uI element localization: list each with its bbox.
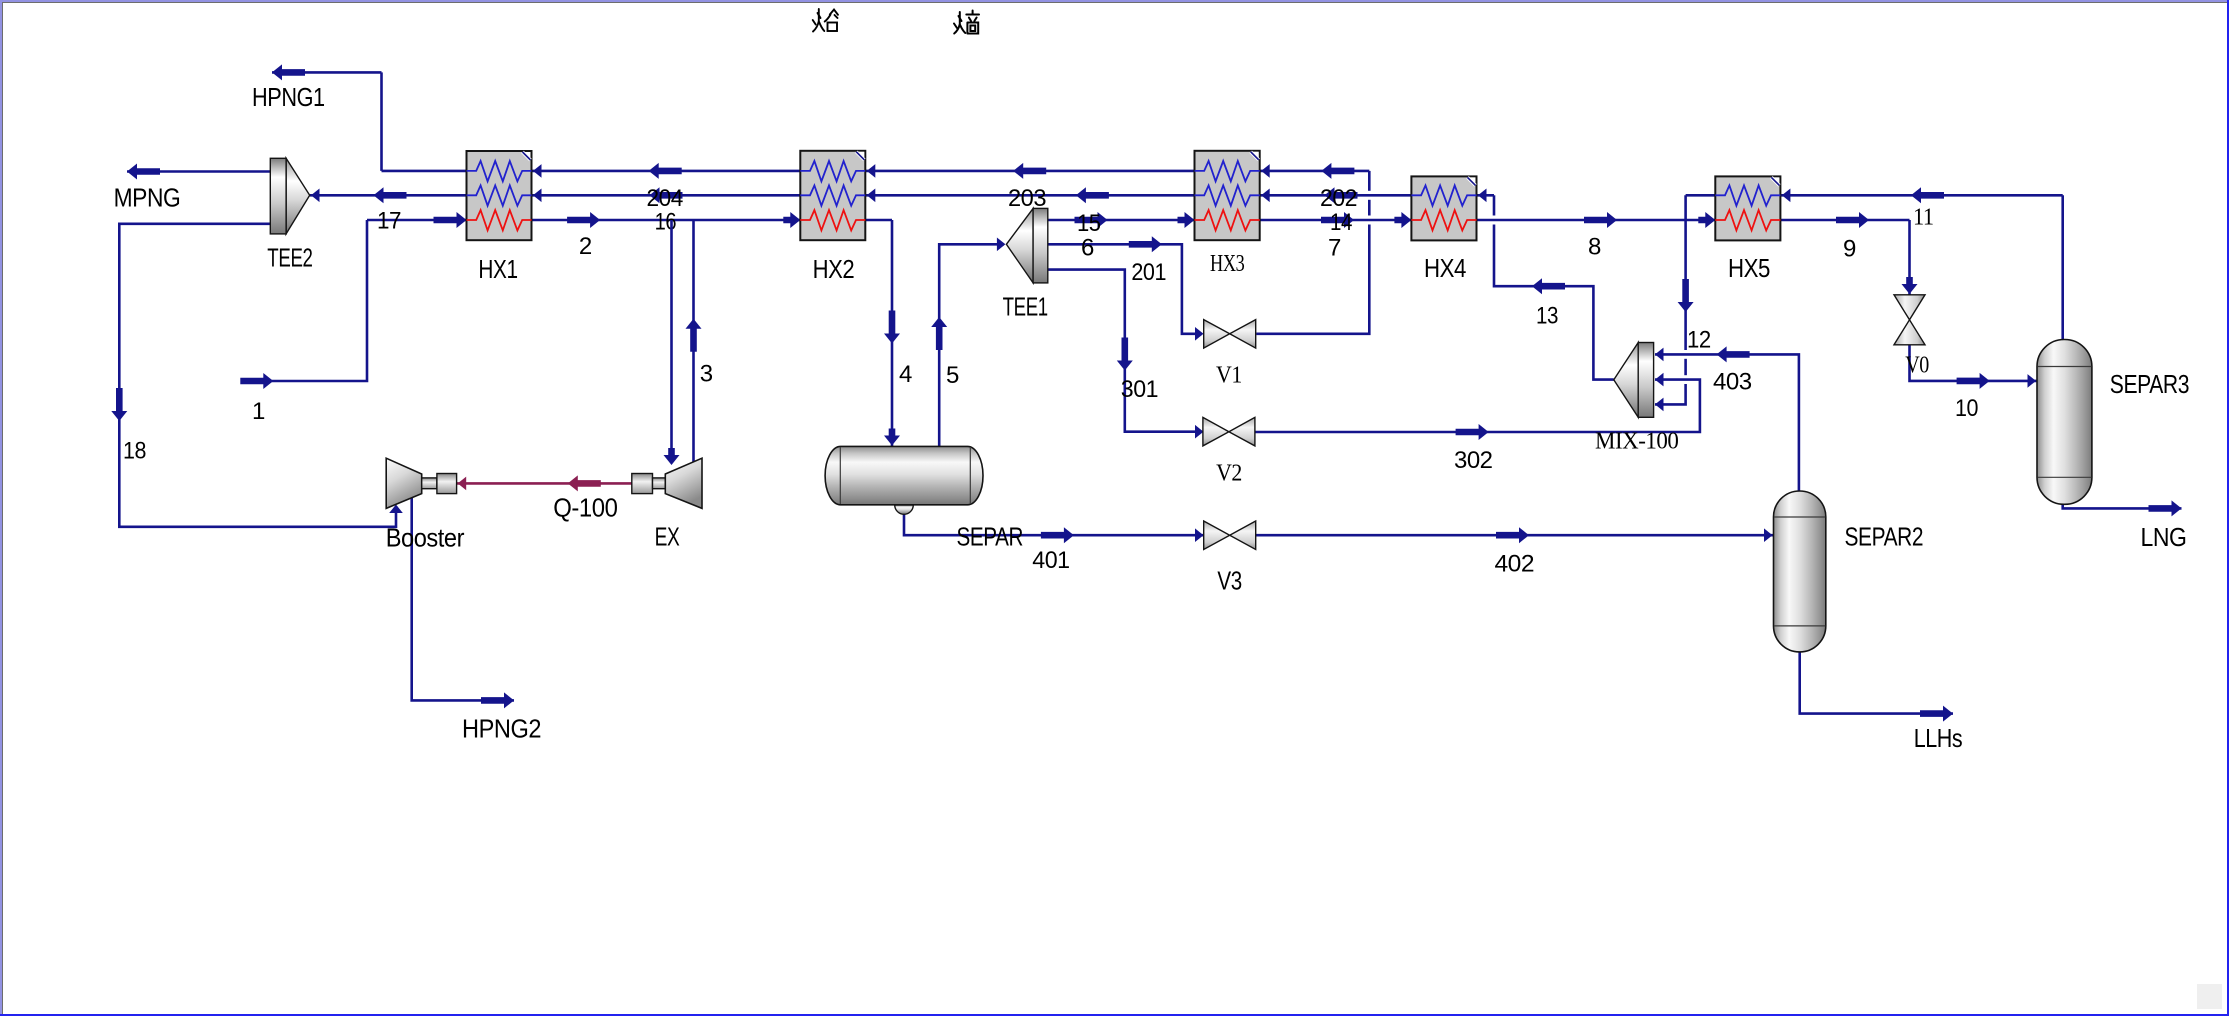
label 5 bbox=[946, 362, 959, 389]
label SEPAR2 bbox=[1845, 521, 1924, 551]
stream arrow top row into HX3 bbox=[1321, 163, 1354, 179]
svg-text:HPNG1: HPNG1 bbox=[252, 82, 325, 112]
wire V2 outlet stream 302 to MIX bbox=[1255, 380, 1700, 432]
stream 9 arrow into V0 bbox=[1902, 277, 1918, 294]
wire red row HX5 to V0 stream 9 bbox=[1780, 220, 1909, 295]
wire stream 5 riser to TEE1 bbox=[939, 244, 1004, 446]
svg-text:11: 11 bbox=[1913, 205, 1934, 231]
wire stream 18 from TEE2 bbox=[119, 224, 396, 527]
label Booster bbox=[386, 523, 465, 553]
node arrowhead at HX3 top right bbox=[1261, 164, 1270, 178]
heat exchanger HX2 bbox=[800, 151, 865, 240]
svg-text:V0: V0 bbox=[1905, 352, 1929, 378]
stream 302 arrowhead into MIX bbox=[1655, 373, 1664, 387]
label 202 bbox=[1320, 185, 1357, 212]
wire red row HX3-HX4 streams 7/14 bbox=[1260, 219, 1412, 222]
wire hot return top row: riser to HX1 bbox=[382, 170, 467, 173]
svg-text:302: 302 bbox=[1454, 447, 1493, 474]
title char 熵 bbox=[954, 11, 979, 34]
heat exchanger HX4 bbox=[1411, 176, 1476, 240]
valve V2 bbox=[1203, 417, 1255, 446]
mixer MIX-100 bbox=[1614, 343, 1654, 418]
node arrowhead at HX1 top right bbox=[533, 164, 542, 178]
wire stream 402 V3 to SEPAR2 bbox=[1255, 534, 1774, 537]
wire mid row TEE2-HX1 stream 204 end bbox=[310, 194, 467, 197]
stream 204 arrow bbox=[650, 187, 683, 203]
valve V3 bbox=[1204, 521, 1256, 550]
svg-text:4: 4 bbox=[899, 361, 912, 388]
svg-text:5: 5 bbox=[946, 362, 959, 389]
stream 15 arrow bbox=[1075, 212, 1108, 228]
svg-text:HPNG2: HPNG2 bbox=[462, 714, 541, 744]
label 3 bbox=[700, 361, 713, 388]
stream 18 arrow down bbox=[111, 388, 127, 421]
svg-text:201: 201 bbox=[1131, 259, 1166, 286]
wire LLHs from SEPAR2 bottom bbox=[1800, 652, 1953, 714]
wire 12 drop from HX5 left bbox=[1686, 194, 1716, 197]
wire mid row HX2-HX3 stream 203 bbox=[865, 194, 1194, 197]
node arrowhead at HX4 mid right bbox=[1478, 189, 1487, 203]
label HX4 bbox=[1424, 253, 1466, 283]
heat exchanger HX1 bbox=[467, 151, 532, 240]
stream 5 arrowhead into TEE1 bbox=[997, 238, 1006, 252]
energy Q-100 arrow bbox=[568, 475, 601, 491]
stream HPNG1 arrow bbox=[272, 64, 305, 80]
label 7 bbox=[1328, 234, 1341, 261]
wire LNG from SEPAR3 bottom bbox=[2063, 502, 2182, 508]
separator SEPAR3 bbox=[2037, 340, 2092, 505]
stream arrow top row into HX2 bbox=[1013, 163, 1046, 179]
label 11 bbox=[1913, 205, 1934, 231]
svg-text:TEE1: TEE1 bbox=[1003, 292, 1048, 322]
wire stream 2 drop to EX bbox=[670, 220, 673, 463]
svg-text:SEPAR: SEPAR bbox=[957, 521, 1024, 551]
wire stream 403 from SEPAR2 to MIX bbox=[1655, 354, 1799, 491]
svg-text:HX5: HX5 bbox=[1728, 253, 1770, 283]
wire top row HX2-HX3 bbox=[865, 170, 1194, 173]
expander EX bbox=[632, 458, 702, 508]
wire top row HX1-HX2 bbox=[532, 170, 801, 173]
wire stream 4 drop into SEPAR bbox=[891, 220, 894, 446]
label TEE1 bbox=[1003, 292, 1048, 322]
wire HPNG1 outlet line bbox=[272, 72, 382, 170]
title char 焓 bbox=[813, 9, 838, 32]
wire HPNG2 from Booster bbox=[412, 498, 514, 700]
stream 11 arrow bbox=[1911, 187, 1944, 203]
wire mid row HX1-HX2 stream 204 bbox=[532, 194, 801, 197]
svg-text:SEPAR3: SEPAR3 bbox=[2110, 369, 2189, 399]
stream 401 arrowhead into V3 bbox=[1195, 528, 1204, 542]
wire red row HX4-HX5 stream 8 bbox=[1477, 219, 1716, 222]
stream arrow top row into HX1 bbox=[649, 163, 682, 179]
wire MPNG from TEE2 bbox=[127, 170, 270, 173]
stream 203 arrow bbox=[1076, 187, 1109, 203]
stream 6 arrowhead into V1 bbox=[1195, 327, 1204, 341]
label EX bbox=[655, 521, 680, 551]
label 10 bbox=[1955, 395, 1978, 422]
wire stream 17 into HX1 bbox=[367, 219, 467, 222]
label LNG bbox=[2141, 522, 2187, 552]
stream 8 arrow bbox=[1584, 212, 1617, 228]
label HPNG1 bbox=[252, 82, 325, 112]
svg-text:V3: V3 bbox=[1217, 566, 1241, 596]
svg-text:HX2: HX2 bbox=[813, 254, 855, 284]
label 203 bbox=[1008, 185, 1046, 212]
wire red row HX1-HX2 streams 2/16 bbox=[532, 219, 801, 222]
wire stream 13 MIX outlet to HX4 bbox=[1494, 195, 1614, 379]
stream 4 arrow down bbox=[884, 311, 900, 344]
label 402 bbox=[1495, 551, 1535, 578]
label 201 bbox=[1131, 259, 1166, 286]
stream 301 arrow down bbox=[1117, 338, 1133, 371]
node arrowhead at TEE2 apex bbox=[311, 189, 320, 203]
label V2 bbox=[1216, 461, 1242, 487]
wire mid row HX5 right to stream 11 riser bbox=[1780, 194, 2062, 197]
svg-text:Q-100: Q-100 bbox=[553, 492, 617, 522]
svg-text:7: 7 bbox=[1328, 234, 1341, 261]
label LLHs bbox=[1914, 723, 1963, 753]
stream 402 arrow bbox=[1496, 527, 1529, 543]
stream 12 arrowhead into MIX bbox=[1655, 398, 1664, 412]
stream 14 arrow bbox=[1321, 212, 1354, 228]
svg-text:TEE2: TEE2 bbox=[267, 243, 312, 273]
stream 302 arrow bbox=[1456, 424, 1489, 440]
stream 15 arrow into HX3 bbox=[1178, 212, 1195, 228]
stream 1 arrow bbox=[240, 373, 273, 389]
stream 402 arrowhead into SEPAR2 bbox=[1764, 528, 1773, 542]
wire HX4 right to 13 riser bbox=[1477, 194, 1495, 197]
svg-text:LLHs: LLHs bbox=[1914, 723, 1963, 753]
stream HPNG2 arrow bbox=[481, 692, 514, 708]
stream LNG arrow bbox=[2149, 500, 2182, 516]
heat exchanger HX5 bbox=[1715, 176, 1780, 240]
stream arrow into TEE2 apex bbox=[374, 187, 407, 203]
stream 9 arrow bbox=[1836, 212, 1869, 228]
label 16 bbox=[655, 208, 677, 235]
node arrowhead at HX2 mid right bbox=[867, 189, 876, 203]
svg-text:18: 18 bbox=[123, 438, 146, 465]
svg-text:10: 10 bbox=[1955, 395, 1978, 422]
stream LLHs arrow bbox=[1920, 706, 1953, 722]
svg-text:HX1: HX1 bbox=[478, 254, 517, 284]
separator SEPAR2 bbox=[1774, 491, 1826, 652]
stream 5 arrow up bbox=[931, 317, 947, 350]
svg-text:EX: EX bbox=[655, 521, 680, 551]
tee TEE2 bbox=[270, 158, 309, 234]
heat exchanger HX3 bbox=[1195, 151, 1260, 240]
wire HX2 red out to stream 4 drop bbox=[865, 219, 892, 222]
label 4 bbox=[899, 361, 912, 388]
label 401 bbox=[1032, 547, 1069, 574]
stream 13 arrow bbox=[1532, 278, 1565, 294]
stream 6 arrow bbox=[1129, 236, 1162, 252]
svg-text:402: 402 bbox=[1495, 551, 1535, 578]
label SEPAR3 bbox=[2110, 369, 2189, 399]
wire stream 401 SEPAR to V3 bbox=[904, 512, 1205, 535]
stream 301 arrowhead into V2 bbox=[1195, 425, 1204, 439]
wire TEE1 out stream 201/301 to V2 bbox=[1048, 270, 1202, 432]
label TEE2 bbox=[267, 243, 312, 273]
node arrowhead at HX2 top right bbox=[867, 164, 876, 178]
svg-text:14: 14 bbox=[1330, 209, 1352, 236]
wire TEE1 out stream 6 to V1 bbox=[1048, 244, 1202, 333]
stream 403 arrow bbox=[1717, 346, 1750, 362]
stream 403 arrowhead into MIX bbox=[1655, 348, 1664, 362]
svg-text:MIX-100: MIX-100 bbox=[1595, 429, 1679, 455]
label 204 bbox=[647, 185, 683, 212]
label 301 bbox=[1121, 376, 1158, 403]
wire stream 1 feed bbox=[242, 220, 367, 381]
wire V1 outlet riser to HX3 top bbox=[1256, 171, 1369, 334]
svg-text:Booster: Booster bbox=[386, 523, 465, 553]
label HPNG2 bbox=[462, 714, 541, 744]
svg-text:1: 1 bbox=[252, 398, 265, 425]
node arrowhead at HX1 mid right bbox=[533, 189, 542, 203]
stream 10 arrowhead into SEPAR3 bbox=[2028, 374, 2037, 388]
label MPNG bbox=[114, 182, 181, 212]
label 2 bbox=[579, 233, 592, 260]
label 9 bbox=[1843, 236, 1856, 263]
svg-text:SEPAR2: SEPAR2 bbox=[1845, 521, 1924, 551]
label 8 bbox=[1588, 234, 1601, 261]
label 302 bbox=[1454, 447, 1493, 474]
label 403 bbox=[1713, 369, 1752, 396]
stream 2 arrowhead into EX bbox=[664, 448, 680, 465]
svg-text:17: 17 bbox=[377, 208, 401, 235]
wire stream 10 V0 to SEPAR3 bbox=[1910, 344, 2038, 381]
label 12 bbox=[1687, 327, 1711, 354]
svg-text:HX4: HX4 bbox=[1424, 253, 1466, 283]
label 1 bbox=[252, 398, 265, 425]
svg-text:MPNG: MPNG bbox=[114, 182, 181, 212]
svg-text:301: 301 bbox=[1121, 376, 1158, 403]
tee TEE1 bbox=[1006, 208, 1047, 283]
wire top row HX3 to V1 riser bbox=[1260, 170, 1370, 173]
svg-text:13: 13 bbox=[1536, 303, 1558, 330]
wire mid row HX3-HX4 stream 202 bbox=[1260, 194, 1412, 197]
svg-text:V1: V1 bbox=[1216, 363, 1242, 389]
svg-text:8: 8 bbox=[1588, 234, 1601, 261]
svg-text:HX3: HX3 bbox=[1210, 251, 1245, 277]
wire stream 11 riser from SEPAR3 bbox=[2061, 195, 2064, 339]
energy stream Q-100 bbox=[457, 482, 632, 485]
label MIX-100 bbox=[1595, 429, 1679, 455]
svg-text:16: 16 bbox=[655, 208, 677, 235]
svg-text:12: 12 bbox=[1687, 327, 1711, 354]
svg-text:401: 401 bbox=[1032, 547, 1069, 574]
stream 10 arrow bbox=[1957, 373, 1990, 389]
svg-text:6: 6 bbox=[1081, 234, 1094, 261]
stream 4 arrow into SEPAR bbox=[884, 429, 900, 446]
stream 3 arrow up bbox=[686, 319, 702, 352]
energy Q-100 arrowhead bbox=[458, 477, 467, 491]
stream 12 arrow down bbox=[1678, 279, 1694, 312]
label 18 bbox=[123, 438, 146, 465]
svg-text:403: 403 bbox=[1713, 369, 1752, 396]
svg-text:15: 15 bbox=[1077, 210, 1101, 237]
node arrowhead at HX5 mid right bbox=[1782, 189, 1791, 203]
window resize grip bbox=[2197, 984, 2222, 1009]
wire red row TEE1 to HX3 stream 15 bbox=[1048, 219, 1195, 222]
label 13 bbox=[1536, 303, 1558, 330]
separator SEPAR bbox=[825, 446, 983, 514]
label 14 bbox=[1330, 209, 1352, 236]
label V0 bbox=[1905, 352, 1929, 378]
wire stream 3 riser from EX bbox=[692, 220, 695, 462]
label HX1 bbox=[478, 254, 517, 284]
label 6 bbox=[1081, 234, 1094, 261]
label HX3 bbox=[1210, 251, 1245, 277]
wire stream 12 from HX5 to MIX bbox=[1655, 195, 1686, 404]
stream 202 arrow into HX3 bbox=[1261, 187, 1357, 203]
stream 17 arrow into HX1 bbox=[434, 212, 467, 228]
compressor Booster bbox=[386, 458, 456, 508]
stream 8 arrow into HX5 bbox=[1698, 212, 1715, 228]
svg-text:2: 2 bbox=[579, 233, 592, 260]
stream MPNG arrow bbox=[127, 164, 160, 180]
stream 7 arrow into HX4 bbox=[1394, 212, 1411, 228]
label HX5 bbox=[1728, 253, 1770, 283]
stream 18 arrowhead into Booster bbox=[389, 505, 403, 514]
label 15 bbox=[1077, 210, 1101, 237]
label V1 bbox=[1216, 363, 1242, 389]
svg-text:9: 9 bbox=[1843, 236, 1856, 263]
label 17 bbox=[377, 208, 401, 235]
valve V0 bbox=[1894, 295, 1925, 345]
valve V1 bbox=[1204, 320, 1256, 349]
stream 3 arrow into HX2 bbox=[783, 212, 800, 228]
stream 2 arrow bbox=[567, 212, 600, 228]
label Q-100 bbox=[553, 492, 617, 522]
svg-text:3: 3 bbox=[700, 361, 713, 388]
label V3 bbox=[1217, 566, 1241, 596]
svg-text:V2: V2 bbox=[1216, 461, 1242, 487]
label HX2 bbox=[813, 254, 855, 284]
svg-text:202: 202 bbox=[1320, 185, 1357, 212]
label SEPAR bbox=[957, 521, 1024, 551]
stream 401 arrow bbox=[1041, 527, 1074, 543]
svg-text:LNG: LNG bbox=[2141, 522, 2187, 552]
